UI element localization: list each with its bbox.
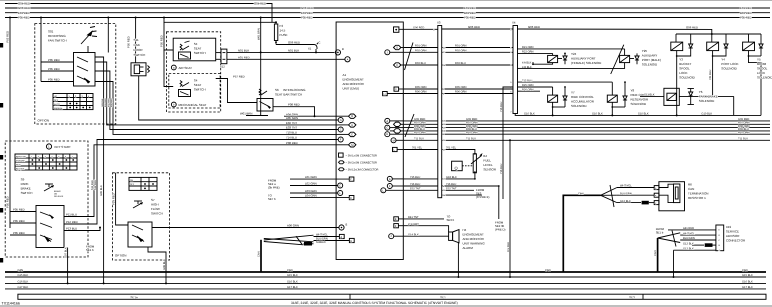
svg-text:E02 TNT: E02 TNT [446, 188, 457, 191]
svg-text:S4: S4 [194, 79, 198, 83]
drawing number TX1144166 [2, 301, 20, 305]
svg-text:SWITCH: SWITCH [194, 88, 206, 92]
svg-text:P14 RED: P14 RED [111, 193, 115, 205]
svg-text:INTERLOCKING: INTERLOCKING [283, 88, 306, 92]
svg-text:R6: R6 [688, 183, 692, 187]
svg-text:SOLENOID: SOLENOID [721, 67, 737, 71]
S01 output wire labels (rotated) [101, 98, 113, 107]
svg-text:S7: S7 [151, 198, 155, 202]
svg-text:G08 BLK: G08 BLK [163, 259, 166, 270]
svg-text:ON: ON [130, 179, 134, 182]
svg-text:D: D [396, 47, 398, 50]
svg-text:F3: F3 [280, 24, 284, 28]
svg-text:G13 BLK: G13 BLK [683, 242, 694, 245]
svg-text:SWITCH: SWITCH [151, 212, 163, 216]
svg-text:CAN: CAN [742, 269, 748, 272]
svg-text:A41 RED: A41 RED [683, 227, 694, 230]
bus labels at x=464 [464, 6, 476, 20]
EMU pin B (air seat) [335, 48, 344, 55]
svg-text:G05 BLK: G05 BLK [101, 98, 104, 107]
svg-text:C: C [386, 127, 388, 130]
svg-text:(3=PRE E): (3=PRE E) [476, 195, 490, 199]
svg-text:C: C [339, 185, 341, 188]
svg-text:HIGH: HIGH [151, 203, 159, 207]
port lock solenoid Y4 [707, 38, 739, 96]
svg-text:S4: S4 [194, 42, 198, 46]
svg-text:SOLENOID: SOLENOID [642, 63, 658, 67]
seat option box (dashed) [167, 32, 221, 112]
svg-text:P05 RED: P05 RED [18, 16, 30, 20]
svg-text:= 3M 12x/JM CONNECTOR: = 3M 12x/JM CONNECTOR [346, 168, 379, 171]
left row labels near EMU [286, 112, 298, 145]
park brake output wires rising [64, 140, 338, 231]
ride control reservoir solenoid Y8 [607, 81, 653, 116]
alarm H4 label [463, 228, 486, 250]
option box S01 (dashed) [35, 24, 116, 124]
svg-text:K: K [350, 197, 352, 200]
svg-text:E: E [351, 133, 353, 136]
svg-text:SEAT BAR SWITCH: SEAT BAR SWITCH [275, 93, 302, 97]
svg-text:G10 BLK: G10 BLK [524, 113, 535, 116]
svg-text:G06 RED: G06 RED [288, 41, 300, 45]
TO SE7b note [268, 194, 276, 202]
svg-text:A: A [340, 236, 342, 239]
svg-text:P05 RED: P05 RED [48, 67, 60, 71]
high flow switch symbol [133, 201, 143, 208]
svg-text:A01 RED: A01 RED [238, 55, 250, 59]
svg-text:R22 ORN: R22 ORN [522, 51, 534, 54]
CAN bus (thick) [5, 269, 766, 272]
EMU lower right pin J [389, 234, 404, 239]
svg-text:14.5: 14.5 [280, 29, 286, 33]
group1 wires X3 to X4 [442, 45, 513, 94]
air seat connector X12 [216, 49, 227, 68]
svg-text:SWITCH: SWITCH [134, 53, 146, 57]
fuel sender wire X3 to sensor [442, 147, 476, 155]
svg-text:E03 TNT: E03 TNT [286, 126, 297, 130]
svg-text:CAN: CAN [258, 251, 261, 257]
EMU right pins group3 [381, 176, 404, 192]
svg-text:R10 ORN: R10 ORN [466, 131, 478, 134]
svg-text:W01 BRN: W01 BRN [257, 28, 260, 40]
svg-text:E04 RED: E04 RED [107, 98, 110, 107]
svg-text:G06 RED: G06 RED [528, 25, 540, 29]
svg-text:OPTION: OPTION [115, 254, 127, 258]
CAN twisted pair to EMU [264, 234, 350, 246]
svg-text:G05 BLK: G05 BLK [100, 185, 103, 196]
svg-text:R06 ORN: R06 ORN [415, 91, 427, 94]
svg-text:741 BLU: 741 BLU [709, 70, 712, 80]
FROM SE2a note [268, 179, 280, 190]
svg-text:P05 RED: P05 RED [740, 16, 752, 20]
svg-text:= 3M 1x/JM CONNECTOR: = 3M 1x/JM CONNECTOR [346, 155, 378, 158]
svg-text:E: E [395, 218, 397, 221]
svg-text:AUXILIARY PORT: AUXILIARY PORT [571, 57, 596, 61]
park brake switch contact box [36, 206, 64, 248]
svg-text:UNIT (EMU): UNIT (EMU) [343, 87, 359, 91]
svg-text:SEAT: SEAT [194, 47, 202, 51]
svg-text:B4: B4 [483, 154, 487, 158]
svg-text:711 BLU: 711 BLU [466, 138, 476, 141]
park brake ground wire G07 BLK [64, 247, 67, 283]
svg-text:LOCK: LOCK [757, 71, 765, 75]
wire stub W01 BRN bottom [240, 112, 268, 116]
svg-text:G18 BLK: G18 BLK [446, 176, 457, 179]
svg-text:CAN: CAN [654, 250, 657, 256]
ground bus G17 BLK [5, 286, 766, 289]
circle a AIR SEAT [171, 65, 192, 70]
svg-text:P13 BLU: P13 BLU [66, 227, 77, 231]
svg-text:P05 RED: P05 RED [48, 58, 60, 62]
ride control wires from X4 [518, 79, 613, 91]
svg-text:CAN: CAN [545, 269, 551, 272]
svg-text:ACCUMULATOR: ACCUMULATOR [571, 100, 595, 104]
svg-text:WHT/YEL: WHT/YEL [620, 185, 632, 188]
svg-text:Y6: Y6 [699, 90, 703, 94]
svg-text:P05 RED: P05 RED [13, 231, 25, 235]
svg-text:SE3 b: SE3 b [447, 218, 455, 222]
EMU CAN pins A and E [339, 234, 354, 242]
wire feeder S01 common [107, 18, 109, 53]
svg-text:R01 ORN: R01 ORN [415, 45, 427, 48]
air seat output wire A01 RED to EMU pin A [227, 55, 344, 59]
EMU lower right pin F [394, 224, 404, 228]
cab door switch S11 label [134, 38, 146, 57]
svg-text:WHT/YEL: WHT/YEL [316, 234, 328, 237]
svg-text:Y25: Y25 [642, 49, 648, 53]
slash mark group1 [405, 43, 414, 71]
group3 wires EMU to X3 [404, 176, 438, 190]
fuel level sensor B4 [452, 153, 497, 173]
wire G4 BLK from pin J [404, 233, 449, 236]
high flow switch S7 label [151, 198, 163, 216]
svg-text:SERVICE: SERVICE [726, 230, 739, 234]
svg-text:B(LD)NE: B(LD)NE [16, 167, 25, 170]
FROM SE1 b note [86, 245, 95, 253]
svg-text:(PRE D): (PRE D) [495, 228, 505, 232]
svg-text:SOLENOID: SOLENOID [699, 99, 715, 103]
svg-text:SOLENOID: SOLENOID [679, 76, 695, 80]
svg-text:R06 ORN: R06 ORN [455, 91, 467, 94]
mechanical seat switch S4 symbol [179, 79, 206, 97]
svg-text:CONNECTOR: CONNECTOR [726, 239, 746, 243]
svg-text:(FEMALE) SOLENOID: (FEMALE) SOLENOID [571, 61, 602, 65]
svg-text:N01 BLK: N01 BLK [238, 48, 249, 52]
svg-text:A1: A1 [343, 73, 347, 77]
EMU right pins group2 [385, 118, 404, 142]
svg-text:715 BLU: 715 BLU [500, 164, 503, 174]
svg-text:SENSOR: SENSOR [483, 168, 497, 172]
svg-text:Q: Q [455, 165, 458, 170]
svg-text:S11: S11 [134, 38, 139, 42]
svg-text:E03 RED: E03 RED [104, 98, 107, 107]
aux port female solenoid Y24 [518, 46, 625, 69]
svg-text:R02 ORN: R02 ORN [455, 50, 467, 53]
lower-left wire labels [305, 175, 317, 198]
bus wire E01 RED (line 3) [5, 11, 770, 15]
svg-text:C: C [340, 129, 342, 132]
svg-text:RELEASE: RELEASE [54, 195, 64, 198]
fuel sensor return wire [442, 173, 476, 180]
EMU pin B high flow [339, 224, 348, 231]
svg-text:711 BLU: 711 BLU [738, 138, 748, 141]
EMU left row pins [338, 114, 356, 147]
svg-text:FUSE: FUSE [280, 33, 288, 37]
svg-text:G03 RED: G03 RED [301, 6, 313, 10]
svg-text:G17 BLK: G17 BLK [18, 286, 29, 289]
svg-text:SE1a: SE1a [130, 295, 138, 299]
svg-text:N01 BLK: N01 BLK [288, 48, 299, 52]
key start option box (dashed) [5, 141, 88, 257]
circle b MECHANICAL SEAT [171, 102, 206, 107]
svg-text:SWITCH: SWITCH [21, 191, 33, 195]
svg-text:REVERSING: REVERSING [48, 34, 66, 38]
svg-text:G04 RED: G04 RED [254, 2, 266, 6]
svg-text:R03 BLU: R03 BLU [415, 62, 426, 65]
margin tick marks left edge [0, 43, 3, 263]
svg-text:RESISTOR 1: RESISTOR 1 [688, 196, 706, 200]
svg-text:R26 ORN: R26 ORN [522, 88, 534, 91]
svg-text:PARK: PARK [21, 182, 29, 186]
svg-text:P05 RED: P05 RED [48, 78, 60, 82]
EMU pin D1 top right [394, 26, 438, 32]
service advisor wires [668, 227, 716, 250]
svg-text:711 BLU: 711 BLU [414, 138, 424, 141]
svg-text:AND MONITOR: AND MONITOR [463, 237, 485, 241]
CAN branch riser to termination resistor (thick) [563, 192, 600, 272]
mechanical seat dashed sub-box [169, 73, 220, 108]
svg-text:E: E [350, 240, 352, 243]
svg-text:MECHANICAL SEAT: MECHANICAL SEAT [179, 103, 207, 107]
svg-text:W01 BRN: W01 BRN [240, 112, 252, 116]
air seat output wire N01 BLK to EMU pin B [227, 48, 335, 53]
svg-text:R03 BLU: R03 BLU [455, 62, 466, 65]
svg-text:Y7: Y7 [571, 91, 575, 95]
svg-text:K: K [396, 64, 398, 67]
svg-text:AUTO: AUTO [54, 103, 60, 106]
svg-text:B: B [346, 224, 348, 227]
svg-text:D: D [351, 115, 353, 118]
svg-text:R10 ORN: R10 ORN [414, 131, 426, 134]
svg-text:E01 RED: E01 RED [18, 11, 30, 15]
S01 contact box [74, 53, 96, 87]
svg-text:OFF: OFF [130, 183, 135, 186]
svg-text:X19: X19 [726, 225, 732, 229]
key start table [15, 154, 77, 170]
ground rail G BLK under solenoids [515, 113, 761, 116]
S01 input wires P05 RED x3 [41, 58, 74, 82]
aux port male solenoid Y25 [533, 49, 661, 69]
svg-text:ENGAGE: ENGAGE [16, 159, 26, 162]
svg-text:SEAT: SEAT [194, 83, 202, 87]
svg-text:318E, 319E, 320E, 323E, 326E M: 318E, 319E, 320E, 323E, 326E MANUAL CONT… [291, 301, 458, 305]
svg-text:P05 RED: P05 RED [6, 31, 10, 43]
ground wire 3=BLK down right of X3 [442, 194, 482, 196]
svg-text:G03 RED: G03 RED [18, 6, 30, 10]
svg-text:A: A [389, 178, 391, 181]
svg-text:M: M [351, 144, 353, 147]
svg-text:G13 BLK: G13 BLK [683, 247, 694, 250]
high flow output wire A06 GRN to EMU [152, 224, 339, 228]
svg-text:A05 GRN: A05 GRN [286, 116, 298, 120]
svg-text:R05 ORN: R05 ORN [455, 86, 467, 89]
cab door switch S11 feeder [127, 18, 136, 63]
svg-text:AND MONITOR: AND MONITOR [343, 82, 365, 86]
mechanical seat output wire P07 RED [216, 75, 257, 103]
svg-text:LEVEL: LEVEL [483, 163, 493, 167]
service advisor twisted pair [658, 231, 681, 247]
svg-text:BLU/GRN: BLU/GRN [620, 192, 632, 195]
svg-text:UNIT WARNING: UNIT WARNING [463, 242, 486, 246]
wire E02 TNT from SE3 [442, 188, 490, 200]
svg-text:FUEL: FUEL [483, 159, 491, 163]
group2 wires X3 to right edge [442, 118, 770, 140]
svg-text:TERMINATION: TERMINATION [688, 192, 708, 196]
ground bus G16 BLK [5, 281, 766, 284]
svg-text:CAN: CAN [287, 269, 293, 272]
svg-text:P12 RED: P12 RED [66, 220, 78, 224]
svg-text:B01 RED: B01 RED [464, 11, 476, 15]
fuel sender wire 701 YEL EMU to X3 [404, 147, 438, 150]
high flow option box (dashed) [113, 173, 170, 260]
wire G06 RED X4 to right solenoid rail [518, 26, 712, 34]
service advisor ground drop [673, 250, 675, 278]
svg-text:AIR SEAT: AIR SEAT [179, 66, 193, 70]
EMU legend connector key [339, 153, 379, 171]
svg-text:RIDE CONTROL: RIDE CONTROL [571, 95, 594, 99]
svg-text:E01 RED: E01 RED [301, 11, 313, 15]
slash mark group2 [405, 114, 414, 137]
high flow ground wire [148, 247, 166, 283]
svg-text:P05 RED: P05 RED [6, 196, 10, 208]
FROM SE1 b note right [656, 227, 665, 235]
circle 1 KEY START [46, 144, 71, 149]
svg-text:FLOW: FLOW [151, 207, 160, 211]
CAN drop to bus (thick) [258, 240, 261, 272]
reversing fan switch S01 label [48, 30, 67, 43]
ground bus G15 BLK [5, 274, 766, 277]
svg-text:OPTION: OPTION [38, 119, 50, 123]
svg-text:TX1144166: TX1144166 [2, 301, 20, 305]
fuse F3 riser and body [274, 22, 287, 44]
connector X4 bar [510, 21, 517, 114]
FROM SE2 3b note [495, 221, 505, 232]
svg-text:CAN: CAN [578, 192, 584, 195]
svg-text:701 YEL: 701 YEL [446, 147, 457, 150]
svg-text:D41 TNT: D41 TNT [408, 216, 419, 219]
CAN termination resistor R6 connector [654, 182, 708, 211]
svg-text:CAB: CAB [134, 43, 140, 47]
svg-text:701 YEL: 701 YEL [412, 147, 423, 150]
svg-text:716 BLU: 716 BLU [446, 183, 456, 186]
svg-text:A06 GRN: A06 GRN [287, 224, 299, 228]
EMU lower right pin E [394, 217, 404, 221]
group2 wires EMU to X3 [404, 118, 438, 140]
svg-text:R10 ORN: R10 ORN [738, 131, 750, 134]
svg-text:P05 RED: P05 RED [160, 35, 164, 47]
svg-text:E02 TNT: E02 TNT [286, 121, 297, 125]
svg-text:PORT (MALE): PORT (MALE) [642, 58, 661, 62]
svg-text:POSITION: POSITION [16, 155, 26, 158]
svg-text:WHT/YEL: WHT/YEL [683, 232, 695, 235]
svg-text:(3b PRE): (3b PRE) [268, 186, 280, 190]
title strip sections [18, 294, 766, 299]
svg-text:H: H [384, 93, 386, 96]
svg-text:Y5: Y5 [757, 58, 761, 62]
air seat switch S4 box [173, 38, 216, 61]
svg-text:4 A BLK: 4 A BLK [522, 61, 532, 64]
svg-text:= 3M 2x/JM CONNECTOR: = 3M 2x/JM CONNECTOR [346, 161, 378, 164]
svg-text:SE1 b: SE1 b [656, 230, 664, 234]
svg-text:C: C [319, 42, 321, 45]
svg-text:E: E [386, 133, 388, 136]
svg-text:Y3: Y3 [679, 58, 683, 62]
svg-text:R01 ORN: R01 ORN [455, 45, 467, 48]
high flow switch table [129, 177, 157, 190]
svg-text:MANUAL: MANUAL [54, 107, 64, 110]
svg-text:P05 RED: P05 RED [301, 16, 313, 20]
svg-text:P06 RED: P06 RED [110, 98, 113, 107]
svg-text:L02 GRN: L02 GRN [305, 182, 317, 186]
svg-text:710 BLU: 710 BLU [286, 131, 297, 135]
svg-text:G10 BLK: G10 BLK [701, 113, 712, 116]
svg-text:G17 BLK: G17 BLK [742, 286, 753, 289]
wire feeder into reversing fan switch [40, 18, 42, 82]
EMU right pin L fuel [393, 147, 404, 151]
svg-text:Y8: Y8 [631, 89, 635, 93]
svg-text:716 BLU: 716 BLU [410, 183, 420, 186]
svg-text:715 BLU: 715 BLU [410, 176, 420, 179]
svg-text:715 BLU: 715 BLU [500, 102, 503, 112]
junction dots bottom ground [67, 282, 167, 284]
junction dots on P05 RED [9, 17, 165, 19]
connector X1 [308, 42, 321, 53]
svg-text:RUN: RUN [16, 163, 21, 166]
svg-text:G10 BLK: G10 BLK [592, 113, 603, 116]
svg-text:P57 RED: P57 RED [233, 75, 245, 79]
ride control accumulator solenoid Y7 [548, 86, 595, 116]
svg-text:L01 GRN: L01 GRN [305, 175, 317, 179]
bus labels mid [301, 6, 313, 20]
EMU unit A1 box [336, 22, 403, 260]
svg-text:G04 RED: G04 RED [18, 2, 30, 6]
svg-text:BUCKET: BUCKET [679, 62, 691, 66]
svg-text:2=4 GRY: 2=4 GRY [408, 223, 419, 226]
reversing fan switch S01 rotary symbol [81, 27, 97, 53]
OR slash aux ports [611, 45, 624, 74]
svg-text:P05 RED: P05 RED [127, 36, 131, 48]
svg-text:E01 RED: E01 RED [464, 6, 476, 10]
svg-text:BLU/GRN: BLU/GRN [683, 237, 695, 240]
svg-text:CAN: CAN [688, 187, 694, 191]
svg-text:G15 BLK: G15 BLK [18, 274, 29, 277]
alarm H4 speaker symbol [449, 230, 459, 243]
svg-text:P11 BLU: P11 BLU [66, 213, 77, 217]
svg-text:X12: X12 [220, 65, 225, 68]
svg-text:L03 GRN: L03 GRN [305, 189, 317, 193]
svg-text:KEY START: KEY START [55, 145, 72, 149]
cab door switch S11 symbol [131, 63, 150, 76]
svg-text:SPOOL: SPOOL [679, 67, 690, 71]
svg-text:SOLENOID: SOLENOID [757, 76, 772, 80]
svg-text:BRAKE: BRAKE [21, 187, 31, 191]
svg-text:G11 BLK: G11 BLK [644, 94, 655, 97]
svg-text:DOOR: DOOR [134, 48, 144, 52]
svg-text:H: H [351, 124, 353, 127]
svg-text:ALARM: ALARM [463, 246, 474, 250]
bottom caption [291, 301, 458, 305]
svg-text:P08 RED: P08 RED [288, 103, 300, 107]
